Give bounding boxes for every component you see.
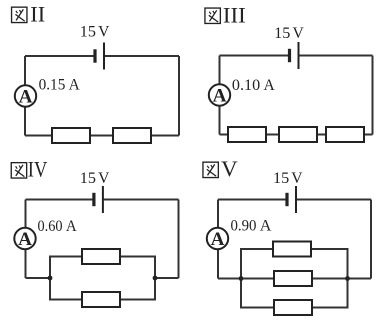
svg-text:A: A [260,218,272,235]
svg-text:A: A [263,77,275,94]
svg-text:II: II [30,2,45,27]
svg-text:0.60: 0.60 [38,218,63,235]
svg-text:0.10: 0.10 [232,77,260,94]
svg-text:15: 15 [273,170,289,187]
svg-text:V: V [293,25,305,42]
svg-text:15: 15 [274,25,290,42]
svg-text:0.90: 0.90 [231,218,257,235]
svg-text:V: V [98,170,110,187]
svg-text:V: V [98,24,110,41]
svg-text:15: 15 [80,170,96,187]
svg-text:III: III [223,2,246,27]
svg-text:0.15: 0.15 [39,76,66,93]
svg-text:A: A [66,218,77,235]
svg-text:V: V [221,156,238,181]
svg-text:15: 15 [80,24,96,41]
svg-text:V: V [291,170,303,187]
svg-text:A: A [69,76,81,93]
svg-text:IV: IV [28,156,48,181]
